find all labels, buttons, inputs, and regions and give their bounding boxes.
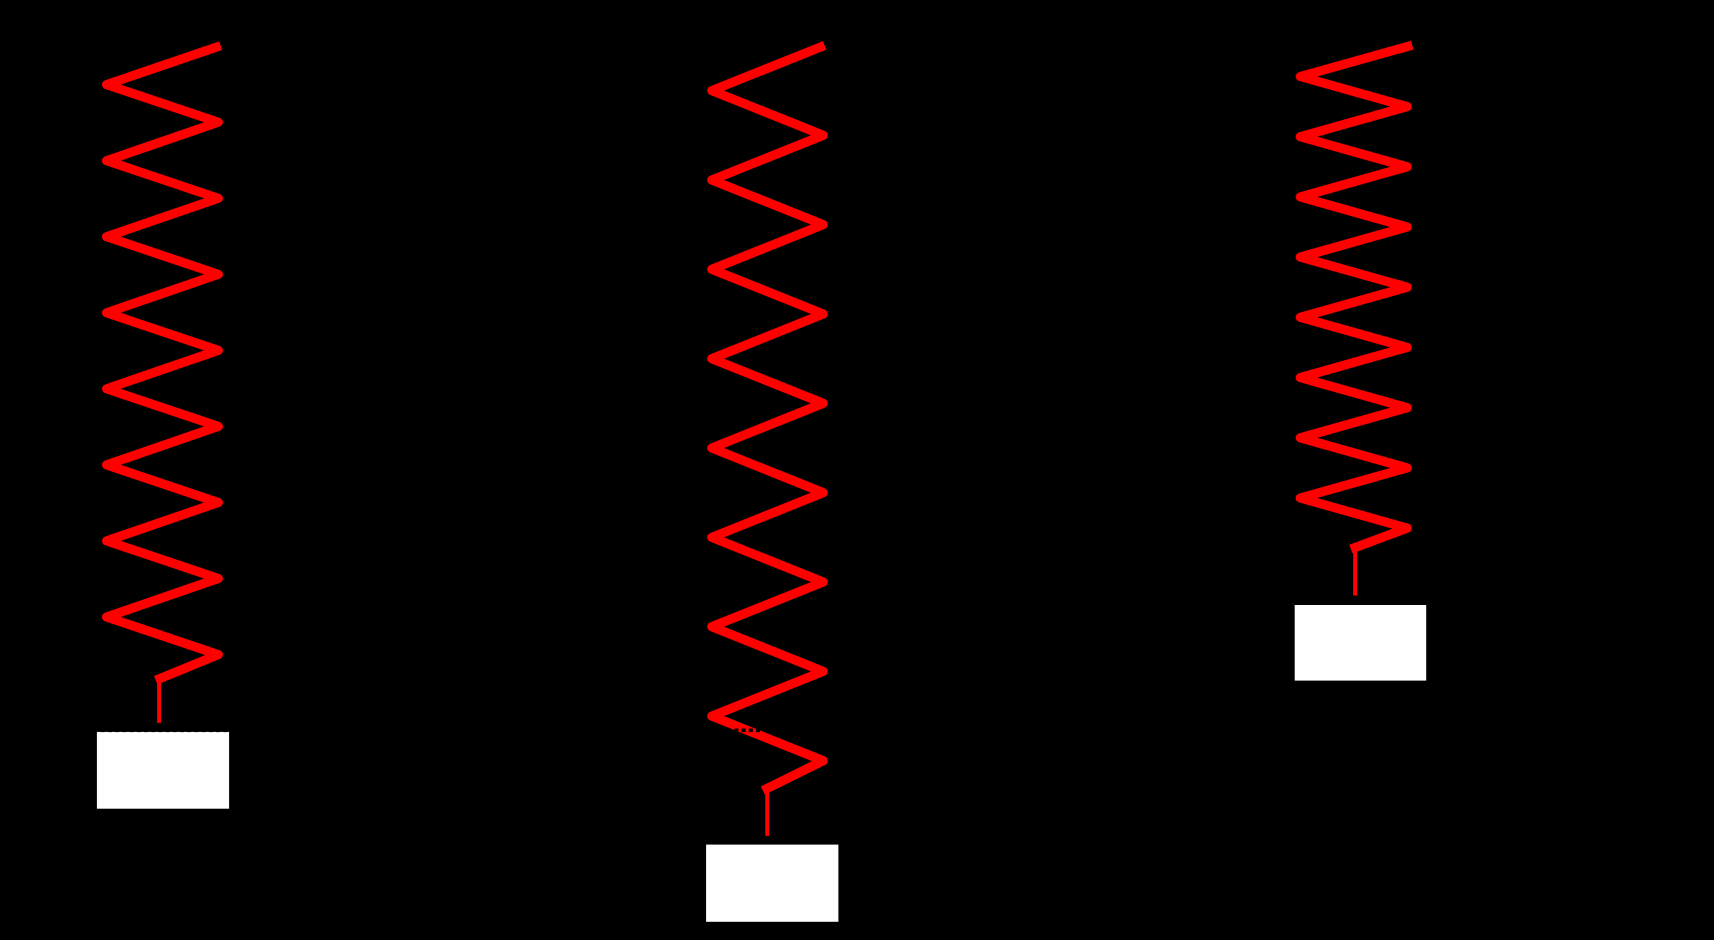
wire (hanger line) from spring 3 to mass 3	[1353, 547, 1357, 596]
spring 2 (middle, stretched zigzag coil)	[712, 47, 823, 788]
wire (hanger line) from spring 2 to mass 2	[765, 788, 769, 836]
spring 1 (left, zigzag coil)	[107, 47, 219, 678]
wire (hanger line) from spring 1 to mass 1	[157, 678, 161, 723]
mass block M3	[1295, 605, 1427, 681]
spring 3 (right, compressed zigzag coil)	[1300, 46, 1408, 547]
dashed reference level line (black, visible only crossing spring 2 and mass 1 top edge)	[0, 728, 1714, 732]
mass block M2	[706, 845, 838, 922]
mass block M1	[97, 732, 229, 809]
